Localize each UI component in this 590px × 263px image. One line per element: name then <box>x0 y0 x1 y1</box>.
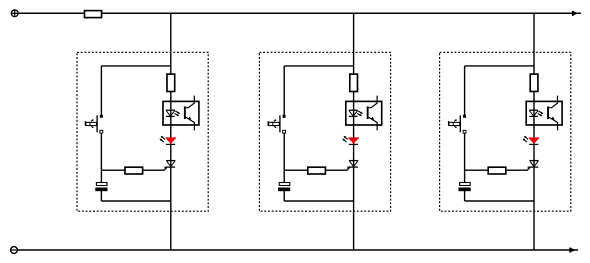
wire: resistor to diode cathode node block 1 <box>142 167 167 171</box>
wire: resistor to diode cathode node block 2 <box>325 167 350 171</box>
resistor R3b (horizontal) <box>488 167 506 174</box>
wire: main vertical drop block 2 <box>353 13 355 250</box>
wire: left branch lower block 2 <box>283 133 285 170</box>
resistor R0 (top rail series) <box>85 11 102 18</box>
wire: capacitor to bottom branch block 1 <box>100 191 102 202</box>
optocoupler U2 body <box>346 101 382 125</box>
wire: capacitor to bottom branch block 2 <box>283 191 285 202</box>
optocoupler U2 LED and phototransistor <box>349 96 378 131</box>
wire: top internal branch block 2 <box>284 65 353 67</box>
wire: node to capacitor block 1 <box>100 170 102 183</box>
wire: node to resistor block 2 <box>284 169 308 171</box>
optocoupler U1 body <box>163 101 199 125</box>
transistor Q3 <box>448 115 466 133</box>
wire: node to capacitor block 3 <box>464 170 466 183</box>
resistor R1b (horizontal) <box>125 167 143 174</box>
channel block 1 dashed enclosure <box>77 52 208 211</box>
diode D1b <box>166 161 175 168</box>
wire: resistor to diode cathode node block 3 <box>505 167 530 171</box>
wire: node to resistor block 3 <box>465 169 489 171</box>
terminal - (negative input) <box>11 247 18 254</box>
LED D2a (red indicator) <box>342 136 358 145</box>
optocoupler U3 body <box>526 101 562 125</box>
terminal + (positive input) <box>11 10 18 17</box>
wire: left branch upper block 2 <box>283 66 285 115</box>
transistor Q1 <box>85 115 103 133</box>
wire: main vertical drop block 1 <box>170 13 172 250</box>
wire: main vertical drop block 3 <box>533 13 535 250</box>
wire: bottom internal branch block 1 <box>101 200 170 202</box>
wire: top internal branch block 1 <box>101 65 170 67</box>
resistor R1a (series, vertical) <box>167 74 175 91</box>
capacitor C1 (polarized) <box>95 183 107 192</box>
resistor R2b (horizontal) <box>308 167 326 174</box>
channel block 2 dashed enclosure <box>259 52 390 211</box>
wire: left branch lower block 3 <box>464 133 466 170</box>
wire: top internal branch block 3 <box>465 65 534 67</box>
capacitor C2 (polarized) <box>278 183 290 192</box>
wire: bottom internal branch block 2 <box>284 200 353 202</box>
transistor Q2 <box>268 115 286 133</box>
resistor R3a (series, vertical) <box>530 74 538 91</box>
wire: bottom supply rail <box>17 249 578 251</box>
wire: node to resistor block 1 <box>101 169 125 171</box>
resistor R2a (series, vertical) <box>350 74 358 91</box>
wire: left branch upper block 3 <box>464 66 466 115</box>
channel block 3 dashed enclosure <box>440 52 571 211</box>
LED D1a (red indicator) <box>160 136 176 145</box>
wire: top supply rail <box>18 12 581 14</box>
capacitor C3 (polarized) <box>459 183 471 192</box>
diode D2b <box>349 161 358 168</box>
optocoupler U1 LED and phototransistor <box>166 96 195 131</box>
arrow: top rail continuation <box>572 11 579 16</box>
wire: left branch upper block 1 <box>100 66 102 115</box>
wire: node to capacitor block 2 <box>283 170 285 183</box>
wire: capacitor to bottom branch block 3 <box>464 191 466 202</box>
optocoupler U3 LED and phototransistor <box>529 96 558 131</box>
wire: left branch lower block 1 <box>100 133 102 170</box>
LED D3a (red indicator) <box>523 136 539 145</box>
wire: bottom internal branch block 3 <box>465 200 534 202</box>
diode D3b <box>529 161 538 168</box>
arrow: bottom rail continuation <box>569 248 576 253</box>
